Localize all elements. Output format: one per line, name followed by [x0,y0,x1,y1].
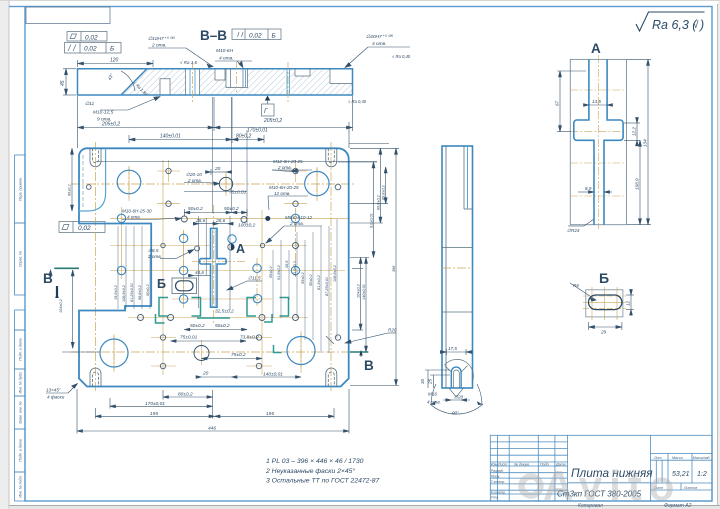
svg-text:44,6: 44,6 [195,270,204,275]
svg-text:89,8±0,2: 89,8±0,2 [376,194,380,210]
svg-text:Инв. № дубл.: Инв. № дубл. [19,371,23,393]
svg-text:81,3±0,2: 81,3±0,2 [317,274,321,290]
svg-text:19,5±0,2: 19,5±0,2 [114,284,118,300]
center/right dividers [650,435,652,501]
cross inner thread lines [212,230,215,306]
corner lifting slots [90,148,337,386]
TITLE BLOCK [490,435,712,501]
central cross cutout [200,228,226,307]
Ra 1.6 check [180,60,197,65]
svg-text:Пров.: Пров. [491,474,500,478]
svg-text:2 Неуказанные фаски 2×45°: 2 Неуказанные фаски 2×45° [265,467,355,475]
svg-text:М10-6Н-20-25: М10-6Н-20-25 [269,185,299,190]
svg-text:396: 396 [392,265,396,272]
section bar inner thread lines (blue) [190,69,290,95]
svg-text:89,8±0,2: 89,8±0,2 [382,184,386,200]
svg-text:104±0,2: 104±0,2 [357,283,361,298]
inner step contour top-left [79,148,106,211]
svg-text:Б: Б [599,270,609,286]
svg-text:√: √ [693,19,699,31]
section bar notch edges [160,69,353,95]
side view centerline [442,267,473,269]
svg-text:2 отв.: 2 отв. [151,43,167,49]
view A dims [557,59,651,226]
section centerlines [193,62,289,102]
svg-text:3 Остальные ТТ по ГОСТ 22472-: 3 Остальные ТТ по ГОСТ 22472-87 [266,478,379,485]
svg-text:Разраб.: Разраб. [491,469,504,473]
svg-text:Масштаб: Масштаб [693,456,711,460]
svg-text:М12-6Н-20-25: М12-6Н-20-25 [273,159,303,164]
svg-text:М16: М16 [428,392,437,397]
svg-text:Утв.: Утв. [491,496,499,500]
right outside dim fan [350,148,399,385]
svg-text:В–В: В–В [200,28,227,43]
leader d20-10 [184,182,220,186]
svg-text:0,02: 0,02 [249,33,262,40]
left margin column boxes [15,155,26,501]
slot B stadium and box [172,278,197,294]
svg-text:2 отв.: 2 отв. [289,221,304,226]
teal pocket brackets [156,298,289,353]
chamfer edge dashes left [82,155,84,207]
svg-text:55±0,2: 55±0,2 [269,266,273,278]
plate outline [79,148,349,386]
frame top-left corner box [26,7,110,24]
left outside dims [49,148,100,352]
svg-text:12,2: 12,2 [632,127,637,136]
svg-text:R20: R20 [388,328,397,333]
dim 28.6/28.6 [193,222,233,225]
dim 44.6 [189,274,211,277]
svg-text:80±0,2: 80±0,2 [178,392,193,398]
hole centerline crosses [96,160,350,375]
section B cut marks [43,271,374,373]
svg-text:28,6: 28,6 [195,218,206,224]
interior dims bottom center [180,309,283,378]
svg-text:104±0,2: 104±0,2 [59,298,63,313]
right-center rotated dim fan [273,219,337,353]
svg-text:Перв. примен.: Перв. примен. [19,177,23,201]
svg-text:Н.контр.: Н.контр. [491,490,506,494]
svg-text:М10-12,5: М10-12,5 [93,110,114,116]
svg-text:4 отв.: 4 отв. [219,56,234,62]
svg-text:195: 195 [266,411,274,417]
svg-text:Лит.: Лит. [653,456,662,460]
section bar outline [78,69,353,95]
svg-text:108,8±0,2: 108,8±0,2 [122,284,126,302]
svg-text:∅11: ∅11 [85,101,94,107]
svg-text:50±0,2: 50±0,2 [215,323,230,329]
dim 120 above section [78,60,154,67]
svg-text:М10-6Н: М10-6Н [216,48,234,54]
svg-text:90°: 90° [452,411,459,416]
Ra 0.40 marks right [348,54,411,104]
view B dims [570,283,634,330]
dim 50/50 row top [184,209,247,216]
view A centerlines [570,55,626,229]
leader d11.5 [227,281,262,290]
svg-text:∅8,5: ∅8,5 [148,248,159,253]
tolerance frame top (flatness 0.02 B) [232,29,281,40]
svg-text:50±0,2: 50±0,2 [224,206,239,212]
svg-text:Б: Б [157,277,166,291]
half-filled datum hole [228,216,270,250]
dim row1 205 / 170 between views [78,96,353,148]
svg-text:87,25±0,01: 87,25±0,01 [325,277,329,296]
svg-text:98,8±0,2: 98,8±0,2 [138,284,142,300]
svg-text:45: 45 [60,80,66,86]
dim 20 top [206,169,232,175]
svg-text:50±0,2: 50±0,2 [190,323,205,329]
small holes navy [87,168,341,368]
datum G flag below bar [262,100,275,116]
section B-B hatched bar [78,69,353,95]
long centerlines [71,142,355,393]
svg-text:∅20: ∅20 [454,395,464,400]
svg-text:1 PL 03 – 396 × 446 × 46 /: 1 PL 03 – 396 × 446 × 46 / 1730 [266,458,364,465]
leader d11 M10-12.5 9 otv below bar [100,97,160,111]
svg-text:96±0,2: 96±0,2 [68,184,72,196]
bottom outside dim rows [77,389,349,434]
svg-text:9,0±0,01: 9,0±0,01 [370,213,374,228]
svg-text:100±0,2: 100±0,2 [238,223,256,229]
svg-text:√ Ra 0,40: √ Ra 0,40 [348,99,367,104]
svg-text:80±0,2: 80±0,2 [236,134,251,140]
svg-text:55±0,2: 55±0,2 [301,272,305,284]
svg-text:Г: Г [264,108,268,115]
svg-text:50±0,2: 50±0,2 [309,274,313,286]
dim 45 left of section [63,69,76,95]
svg-text:4 отв.: 4 отв. [427,400,441,405]
svg-text:Т.контр.: Т.контр. [491,480,506,484]
svg-text:134: 134 [643,139,648,147]
notes text block [265,458,379,485]
svg-text:20: 20 [214,166,221,172]
svg-text:50±0,2: 50±0,2 [188,206,203,212]
svg-text:28,9: 28,9 [285,260,289,269]
svg-text:2 отв.: 2 отв. [187,178,202,183]
chamfer note bottom left [46,384,78,394]
svg-text:∅20-10: ∅20-10 [186,172,202,177]
Ra 6.3 roughness mark top-right [636,12,705,31]
svg-text:50±0,2: 50±0,2 [146,284,150,296]
svg-text:2 отв.: 2 отв. [147,254,162,259]
svg-text:1:2: 1:2 [697,471,707,478]
svg-text:∅10Н7⁺⁰·⁰¹⁵: ∅10Н7⁺⁰·⁰¹⁵ [148,36,175,42]
svg-text:140±0,01: 140±0,01 [160,134,181,140]
svg-text:168,9: 168,9 [635,178,640,190]
title block values [557,466,707,499]
label B-B [200,28,227,43]
svg-text:0,02: 0,02 [84,46,97,53]
svg-text:32,5±0,2: 32,5±0,2 [215,309,234,315]
svg-text:Подп. и дата: Подп. и дата [19,439,23,462]
svg-text:Масса: Масса [672,456,683,460]
tolerance frame lower-left (flatness 0.02) [59,222,105,233]
countersink 90 deg angle arcs [430,384,483,414]
svg-text:∅11,5: ∅11,5 [248,276,261,281]
svg-text:0,02: 0,02 [78,225,91,232]
svg-text:Подп. и дата: Подп. и дата [19,338,23,361]
vertical dividers left part [497,435,499,501]
svg-text:205±0,2: 205±0,2 [101,122,120,128]
witness lines section to plan [96,97,389,310]
R20 note [345,333,396,343]
svg-text:№ докум.: № докум. [514,462,530,466]
svg-text:В: В [364,358,374,373]
tolerance frame left 1 [67,32,107,42]
leader M12-6N-20-25 [272,169,312,172]
big guide holes [100,170,329,367]
svg-text:R6: R6 [573,283,579,288]
svg-text:√ Ra 1,6: √ Ra 1,6 [180,60,197,65]
svg-text:13,5: 13,5 [592,99,601,104]
svg-text:140±0,01: 140±0,01 [263,372,283,378]
dim row2 140 / 80 [129,97,264,143]
svg-text:8,9: 8,9 [585,186,592,191]
left-center rotated dim fan [118,226,150,309]
svg-text:Изм: Изм [491,462,498,466]
svg-text:446: 446 [208,426,216,432]
Ra 1.80 mark on chamfer [132,80,149,97]
svg-text:М5-6Н-10-12: М5-6Н-10-12 [285,215,313,220]
svg-text:В: В [43,271,53,286]
svg-text:Б: Б [110,46,114,53]
svg-text:75±0,01: 75±0,01 [229,190,247,196]
leader d10H7 2 otv [148,48,213,68]
tolerance frame left 2 (parallelism 0.02 B) [65,43,122,54]
mini revision table rows [490,441,567,443]
svg-text:∅40Н7⁺⁰·⁰²⁵: ∅40Н7⁺⁰·⁰²⁵ [366,34,393,40]
view A cross profile [574,59,623,224]
svg-text:А: А [236,242,245,256]
leader d40H7 4 otv [345,47,410,68]
svg-text:Ra 6,3 (: Ra 6,3 ( [652,18,698,32]
side view inner lines [442,146,473,388]
svg-text:31,9±0,2: 31,9±0,2 [293,260,297,276]
view A body [570,59,626,224]
svg-text:Справ. №: Справ. № [19,251,23,267]
svg-text:170±0,01: 170±0,01 [145,401,165,407]
svg-text:Б: Б [272,33,276,40]
svg-text:25: 25 [428,378,433,385]
svg-text:А: А [591,41,601,56]
below-frame texts [578,503,692,509]
leader M10-6N-20-25 12 otv [268,196,308,210]
bottom threaded hole detail on side view [451,367,461,388]
svg-text:73,8±0,2: 73,8±0,2 [240,335,259,341]
svg-text:Листов: Листов [683,486,697,490]
title block small texts [491,456,711,500]
svg-text:13×45°: 13×45° [46,388,61,393]
leader M10-6H 4 otv [215,61,252,68]
svg-text:30: 30 [420,378,425,384]
svg-text:205±0,2: 205±0,2 [263,118,282,124]
medium holes [194,177,233,360]
svg-text:М10-6Н-25-30: М10-6Н-25-30 [122,209,152,214]
detail dims [425,349,472,401]
svg-text:Инв. № подл.: Инв. № подл. [19,475,23,497]
leader M10-6N-25-30 [122,217,181,220]
side view outline [442,146,473,388]
svg-text:29: 29 [600,330,607,335]
svg-text:195: 195 [150,411,158,417]
svg-text:12: 12 [626,300,631,306]
svg-text:12 отв.: 12 отв. [274,191,290,196]
svg-text:140±0,01: 140±0,01 [362,284,366,300]
svg-text:√ Ra 0,40: √ Ra 0,40 [392,54,411,59]
svg-text:75±0,01: 75±0,01 [180,335,198,341]
svg-text:4 отв.: 4 отв. [372,41,387,47]
svg-text:51,9±0,2: 51,9±0,2 [277,264,281,280]
small holes blue counterbored [117,214,299,303]
svg-text:67: 67 [555,100,560,106]
svg-text:120: 120 [110,58,119,64]
Avito watermark [522,477,541,496]
svg-text:Avito: Avito [543,462,681,509]
svg-text:Взам. инв. №: Взам. инв. № [19,401,23,423]
svg-text:2 отв.: 2 отв. [277,165,292,170]
svg-text:81,25±0,01: 81,25±0,01 [130,283,134,302]
chamfer 45deg arc note [121,71,135,91]
svg-text:20: 20 [202,371,209,377]
svg-text:4 фаски: 4 фаски [47,395,65,400]
leader M5-6N-10-12 [266,226,322,243]
svg-text:4 отв.: 4 отв. [127,214,141,219]
svg-text:28,6: 28,6 [215,218,226,224]
svg-text:Лист: Лист [497,462,507,466]
svg-text:75±0,2: 75±0,2 [231,352,246,358]
left margin rotated labels [19,177,23,498]
svg-text:∅R24: ∅R24 [567,228,580,233]
svg-text:17,5: 17,5 [448,346,457,351]
svg-text:0,02: 0,02 [85,35,98,42]
svg-text:108,8±0,2: 108,8±0,2 [333,264,337,282]
leader d8.5 [160,250,194,259]
